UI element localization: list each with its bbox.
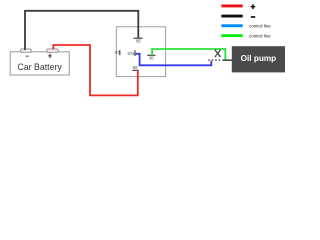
svg-text:Car Battery: Car Battery <box>17 62 62 72</box>
svg-text:control line: control line <box>249 24 271 29</box>
svg-text:87a: 87a <box>128 51 136 56</box>
svg-text:86: 86 <box>133 65 138 70</box>
svg-text:30: 30 <box>149 56 154 61</box>
svg-text:Oil pump: Oil pump <box>241 54 276 63</box>
svg-text:85: 85 <box>136 38 141 43</box>
svg-text:control line: control line <box>249 33 271 38</box>
